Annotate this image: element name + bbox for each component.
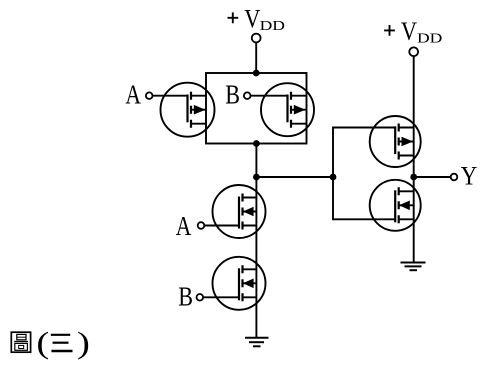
transistor Q3 NMOS (input A) [213,185,266,238]
terminal VDD right [409,47,418,56]
node junction at box top [253,70,260,77]
terminal input A top [146,92,153,99]
wire output node to Y terminal [414,176,451,178]
transistor Q4 NMOS (input B) [213,257,266,310]
wire input B to Q4 gate [203,296,239,298]
wire NAND output vertical (box bottom to NMOS chain and ground) [255,144,257,338]
label +VDD (left supply) [228,5,285,34]
wire VDD left to box top [255,42,257,73]
wire input A to Q1 gate [153,95,188,97]
label figure caption 圖(三) [11,326,90,360]
wire inverter vertical (VDD to ground) [413,56,415,262]
svg-text:(: ( [36,326,49,360]
wire input A to Q3 gate [204,225,239,227]
wire rectangle of parallel PMOS pair [206,73,307,144]
svg-text:Y: Y [461,162,478,191]
svg-text:A: A [125,80,141,110]
transistor Q2 PMOS (input B) [261,83,314,136]
node junction at box bottom [253,140,260,147]
wire input B to Q2 gate [251,95,288,97]
svg-text:A: A [176,212,192,242]
terminal input B bottom [197,294,204,301]
svg-text:B: B [225,81,240,111]
terminal VDD left [252,34,261,43]
node junction output Y [410,174,417,181]
label +VDD (right supply) [384,17,442,46]
svg-text:B: B [178,282,193,312]
hand-drawn CJK char 圖 [11,332,30,352]
terminal input A bottom [198,222,205,229]
ground (below inverter) [401,263,426,271]
wire inverter gate bus (C shape) [333,128,395,220]
svg-text:DD: DD [417,31,442,46]
ground (below NMOS chain) [245,338,269,347]
wire node to inverter gate bus [256,176,333,178]
svg-text:V: V [244,5,261,34]
transistor Q6 NMOS (inverter) [370,180,421,231]
hand-drawn CJK char 三 [51,335,73,351]
svg-text:DD: DD [260,19,285,34]
transistor Q1 PMOS (input A) [161,83,215,137]
svg-text:V: V [401,17,418,46]
transistor Q5 PMOS (inverter) [370,116,421,167]
svg-text:): ) [77,326,90,360]
node junction on output vertical [253,174,260,181]
terminal input B top [244,92,251,99]
node junction on inverter gate bus [330,174,337,181]
terminal output Y [451,174,458,181]
